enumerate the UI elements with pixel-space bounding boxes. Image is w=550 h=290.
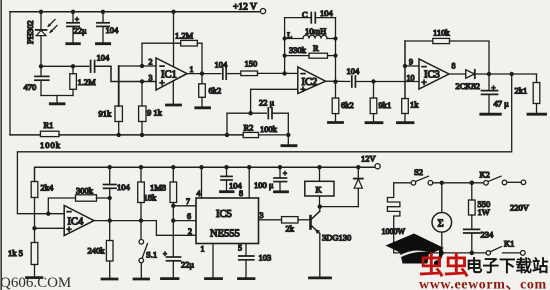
wire IC1 output — [187, 73, 221, 75]
svg-text:2: 2 — [149, 58, 153, 67]
svg-text:100 μ: 100 μ — [254, 180, 274, 190]
svg-text:1000W: 1000W — [382, 227, 406, 236]
resistor 91k left — [99, 66, 123, 135]
resistor 240k — [88, 221, 118, 279]
heater 1000W — [382, 183, 406, 253]
svg-text:+: + — [163, 250, 167, 258]
resistor 550 1W snubber — [469, 183, 491, 229]
capacitor 234 snubber — [464, 229, 494, 253]
svg-text:9 1k: 9 1k — [147, 108, 163, 118]
photodiode PH302 — [25, 12, 57, 67]
svg-text:2: 2 — [188, 227, 192, 236]
node IC2 input — [282, 71, 286, 75]
svg-text:104: 104 — [320, 8, 334, 18]
diode flyback — [354, 167, 363, 206]
svg-text:9: 9 — [409, 58, 413, 67]
node 9k1 — [371, 79, 375, 83]
svg-text:+: + — [283, 170, 287, 178]
svg-text:1M8: 1M8 — [150, 183, 166, 193]
node input row — [39, 64, 75, 68]
svg-text:Q606.COM: Q606.COM — [0, 275, 71, 290]
capacitor 104 coupling — [89, 53, 110, 73]
wire IC4 output — [94, 221, 196, 236]
node S1 — [139, 218, 143, 222]
svg-text:91k: 91k — [99, 109, 113, 119]
resistor 6k2 second — [329, 82, 354, 123]
wire IC3 output — [449, 73, 466, 75]
inductor L 10mH — [285, 26, 336, 40]
svg-text:7: 7 — [186, 197, 190, 206]
svg-text:PH302: PH302 — [25, 20, 35, 44]
svg-text:104: 104 — [106, 25, 120, 35]
IC5 NE555 — [188, 167, 264, 278]
svg-text:IC5: IC5 — [216, 209, 232, 220]
terminal 12V — [361, 154, 380, 169]
svg-text:1k 5: 1k 5 — [8, 248, 23, 258]
svg-text:3: 3 — [149, 74, 153, 83]
switch K1 — [486, 239, 525, 256]
network R2 100k / 22u — [227, 98, 288, 135]
svg-text:虫虫: 虫虫 — [419, 252, 469, 280]
switch S2 — [394, 167, 484, 185]
op-amp IC4 — [64, 206, 94, 236]
svg-text:1: 1 — [201, 245, 205, 254]
capacitor 103 pin5 — [239, 253, 272, 279]
resistor 9k1 — [366, 82, 391, 123]
wire bottom 220V row — [394, 252, 486, 254]
svg-text:6: 6 — [187, 212, 191, 221]
op-amp IC2 — [298, 67, 326, 95]
op-amp IC1 — [149, 12, 194, 105]
wire 555 pin6 — [173, 212, 196, 221]
node K2 row — [440, 181, 475, 186]
svg-text:300k: 300k — [76, 186, 94, 196]
resistor 1k5 — [8, 228, 42, 277]
switch S1 — [134, 221, 157, 279]
svg-text:IC2: IC2 — [302, 77, 318, 88]
svg-text:104: 104 — [97, 53, 111, 63]
wire IC4 pin plus — [35, 227, 65, 229]
wire IC3 to bottom section — [17, 74, 511, 214]
svg-text:100k: 100k — [260, 124, 278, 134]
svg-text:220V: 220V — [510, 203, 530, 213]
svg-text:NE555: NE555 — [210, 229, 240, 240]
relay K coil — [305, 167, 334, 206]
capacitor 104 coupling 2 — [215, 60, 241, 80]
resistor 2k base — [282, 217, 310, 234]
ground bar 22u — [67, 42, 80, 45]
resistor R1 100k — [40, 120, 61, 150]
svg-text:12V: 12V — [361, 154, 377, 164]
svg-text:2k: 2k — [286, 224, 295, 234]
node IC1 output — [200, 71, 204, 75]
resistor 150 — [241, 59, 285, 76]
svg-text:47 μ: 47 μ — [494, 99, 510, 109]
svg-text:IC1: IC1 — [161, 70, 177, 81]
svg-text:150: 150 — [245, 59, 258, 69]
capacitor 104 IC4 — [104, 167, 131, 220]
svg-text:22 μ: 22 μ — [259, 98, 275, 108]
svg-text:104: 104 — [117, 182, 131, 192]
node 300k/104 — [108, 196, 112, 223]
svg-text:240k: 240k — [88, 246, 106, 256]
node collector — [318, 204, 322, 208]
svg-text:R1: R1 — [44, 120, 54, 130]
svg-text:电子下载站: 电子下载站 — [466, 256, 549, 276]
svg-text:6k2: 6k2 — [209, 86, 222, 96]
resistor 1.2M feedback — [142, 31, 202, 74]
wire 470/1.2M bottom — [41, 95, 73, 97]
svg-text:+12 V: +12 V — [233, 3, 257, 13]
resistor 91k right — [139, 82, 163, 135]
svg-text:L: L — [287, 30, 292, 40]
wire IC2 pin plus — [251, 89, 298, 113]
transistor 3DG130 — [309, 207, 351, 278]
wire input jog to pin3 — [95, 66, 156, 81]
svg-text:1k: 1k — [410, 100, 419, 110]
motor M — [432, 183, 452, 253]
resistor 1M8 / 22u chain — [150, 167, 177, 257]
wire bottom bias rail — [59, 134, 243, 136]
wire pin2 row — [119, 65, 156, 67]
svg-text:103: 103 — [259, 253, 272, 263]
wire IC3 pin9 / 1k column — [403, 41, 419, 99]
switch K2 — [480, 170, 526, 186]
diode 2CK82 — [456, 70, 490, 91]
svg-text:234: 234 — [481, 230, 495, 240]
svg-text:6k2: 6k2 — [341, 100, 354, 110]
svg-text:22μ: 22μ — [181, 260, 195, 270]
svg-text:2k4: 2k4 — [41, 183, 55, 193]
resistor 2k4 / 1k5 divider — [31, 182, 54, 229]
wire bottom bias rail left — [10, 134, 40, 136]
wire top +12V rail — [10, 11, 260, 13]
ground R2 — [282, 135, 296, 146]
wire 555 pin3 — [259, 219, 282, 221]
svg-text:C: C — [302, 10, 308, 20]
svg-text:9k1: 9k1 — [379, 100, 392, 110]
wire output row right — [489, 73, 537, 75]
svg-text:2CK82: 2CK82 — [456, 81, 481, 91]
svg-text:K: K — [316, 185, 323, 195]
resistor 110k feedback — [405, 28, 489, 75]
wire input row — [41, 65, 89, 67]
svg-text:+: + — [75, 16, 79, 24]
svg-text:R: R — [313, 43, 319, 53]
svg-text:10mH: 10mH — [305, 26, 326, 36]
svg-text:470: 470 — [24, 82, 37, 92]
capacitor 22u top — [67, 12, 87, 42]
svg-text:Σ: Σ — [438, 219, 444, 230]
node top rail junctions — [39, 10, 176, 14]
svg-text:+: + — [492, 84, 496, 92]
svg-text:100k: 100k — [40, 140, 61, 150]
svg-text:S.1: S.1 — [146, 250, 157, 260]
svg-text:110k: 110k — [433, 28, 450, 38]
terminal +12V — [233, 3, 266, 14]
resistor R2 100k — [243, 123, 288, 138]
svg-text:−: − — [67, 207, 72, 217]
svg-text:2k1: 2k1 — [515, 86, 528, 96]
capacitor 104 coupling 3 — [347, 66, 420, 87]
svg-text:10: 10 — [407, 74, 415, 83]
capacitor 104 near 555 — [221, 167, 243, 192]
svg-text:3DG130: 3DG130 — [322, 233, 351, 243]
wire to IC2 pin minus — [285, 72, 298, 74]
svg-text:K1: K1 — [504, 239, 514, 249]
svg-text:22μ: 22μ — [74, 26, 88, 36]
svg-text:1.2M: 1.2M — [175, 31, 194, 41]
svg-text:1.2M: 1.2M — [78, 77, 97, 87]
svg-text:5: 5 — [238, 244, 242, 253]
svg-text:IC4: IC4 — [68, 217, 85, 228]
svg-text:8: 8 — [452, 62, 456, 71]
node rail 12V — [108, 165, 361, 169]
svg-text:K2: K2 — [480, 170, 490, 180]
resistor 2k1 — [515, 74, 546, 114]
svg-text:1: 1 — [190, 65, 194, 74]
wire left border — [9, 12, 11, 135]
capacitor 104 top — [97, 12, 119, 42]
resistor 6k2 — [196, 74, 221, 108]
capacitor 100u — [254, 167, 288, 192]
node IC4 pin plus — [32, 226, 36, 230]
node pin rows — [140, 64, 144, 84]
ground bar 104 — [97, 42, 110, 45]
svg-text:IC3: IC3 — [424, 70, 440, 81]
svg-text:4: 4 — [197, 189, 201, 198]
svg-text:R2: R2 — [244, 123, 254, 133]
node bottom row — [440, 251, 475, 256]
rail 12V bottom section — [35, 167, 376, 181]
node 555 pins 7 6 — [171, 204, 175, 223]
capacitor C 104 feedback — [285, 8, 336, 23]
resistor 1.2M input — [70, 66, 96, 95]
svg-text:104: 104 — [347, 66, 361, 76]
svg-text:104: 104 — [229, 181, 243, 191]
node IC4 feedback — [46, 212, 50, 216]
wire IC2 loop columns — [283, 18, 338, 84]
wire IC2 output — [326, 80, 350, 82]
svg-text:1W: 1W — [478, 207, 490, 217]
svg-text:S2: S2 — [414, 167, 423, 177]
node diode out — [487, 72, 514, 76]
svg-text:www.eeworm、com: www.eeworm、com — [419, 278, 547, 290]
resistor 1k — [398, 99, 420, 123]
capacitor 470 — [24, 66, 49, 95]
svg-text:3: 3 — [260, 211, 264, 220]
resistor R 330k feedback — [285, 43, 336, 58]
svg-text:330k: 330k — [289, 45, 307, 55]
scan edge artifact line — [0, 0, 2, 290]
ground 470 — [50, 96, 64, 104]
watermark cap logo — [386, 234, 445, 266]
capacitor 47u — [481, 74, 509, 114]
svg-text:18k: 18k — [144, 193, 158, 203]
wire collector to diode — [320, 206, 359, 208]
capacitor 22u bottom — [162, 250, 195, 279]
wire 555 pin7 — [173, 197, 196, 206]
resistor 300k feedback — [48, 186, 109, 214]
node bias rail — [117, 133, 291, 137]
op-amp IC3 — [407, 58, 456, 90]
svg-text:104: 104 — [215, 60, 229, 70]
resistor 18k — [138, 167, 157, 220]
